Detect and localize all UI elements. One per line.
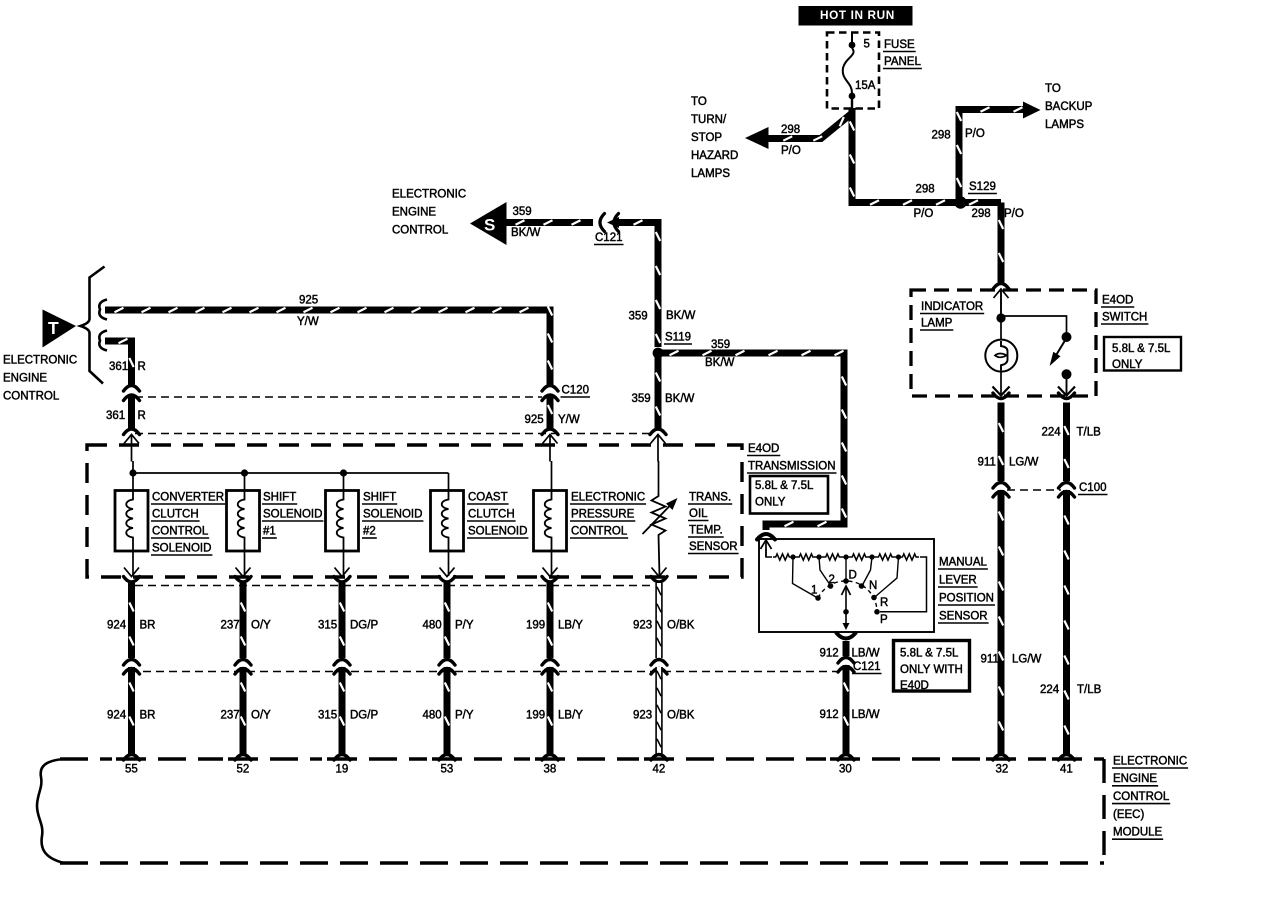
label fuse rating 15A: [855, 80, 876, 92]
svg-text:925: 925: [525, 414, 544, 426]
svg-text:30: 30: [839, 763, 852, 775]
electronic pressure control solenoid: [534, 491, 567, 552]
label T/LB (upper): [1077, 426, 1102, 438]
wire shift1 to case: [244, 551, 246, 576]
svg-text:P/Y: P/Y: [455, 709, 474, 721]
label 5.8L & 7.5L ONLY WITH E40D: [900, 647, 963, 692]
svg-text:P/O: P/O: [965, 128, 985, 140]
wire 924 BR upper: [129, 583, 133, 658]
svg-text:CLUTCH: CLUTCH: [152, 508, 199, 520]
pin 55: [125, 763, 138, 775]
svg-text:ENGINE: ENGINE: [1113, 773, 1157, 785]
svg-text:LB/Y: LB/Y: [558, 619, 583, 631]
pin 41: [1060, 763, 1073, 775]
case connector entry wire 359: [650, 429, 666, 462]
pin 53: [441, 763, 454, 775]
arrow T to electronic engine control: [43, 310, 77, 348]
label T/LB (lower): [1077, 684, 1102, 696]
trans oil temp sensor thermistor: [643, 493, 678, 576]
label 912 (upper): [820, 647, 839, 659]
svg-text:SHIFT: SHIFT: [263, 491, 296, 503]
svg-text:SOLENOID: SOLENOID: [468, 525, 527, 537]
label HOT IN RUN: [820, 8, 895, 22]
svg-text:C121: C121: [595, 232, 623, 244]
label gear R: [880, 597, 888, 609]
svg-text:5.8L & 7.5L: 5.8L & 7.5L: [900, 647, 959, 659]
svg-text:MANUAL: MANUAL: [939, 556, 988, 568]
MLP resistor chain: [766, 549, 927, 612]
svg-text:SOLENOID: SOLENOID: [363, 508, 422, 520]
svg-text:CONVERTER: CONVERTER: [152, 491, 224, 503]
connector C121 on wire 237 O/Y: [235, 660, 251, 675]
letter S: [484, 216, 495, 235]
connector C121 lower dashed link line: [130, 671, 840, 673]
svg-text:LB/W: LB/W: [852, 647, 880, 659]
label P/O (backup): [965, 128, 985, 140]
svg-text:DG/P: DG/P: [350, 709, 378, 721]
transmission case connector dashed link line: [135, 433, 652, 435]
svg-text:PRESSURE: PRESSURE: [571, 508, 635, 520]
svg-text:R: R: [138, 361, 146, 373]
svg-text:911: 911: [978, 456, 996, 468]
bus junction node 1: [129, 469, 136, 476]
label BK/W (S119 above): [666, 310, 696, 322]
svg-text:C121: C121: [853, 661, 881, 673]
label LG/W (upper): [1009, 456, 1039, 468]
MLP rotary contact arc: [818, 581, 877, 612]
wire 359 BK/W from C121 to S119: [616, 220, 660, 347]
wire 480 P/Y lower: [445, 667, 449, 754]
wire 315 DG/P upper: [340, 583, 344, 658]
label LB/Y (row1): [558, 619, 583, 631]
svg-text:912: 912: [820, 709, 839, 721]
label SHIFT SOLENOID #1: [262, 491, 323, 538]
connector C121 on wire 912: [838, 658, 854, 673]
MLP contact dots: [815, 578, 880, 614]
label 480 (row2): [423, 709, 442, 721]
svg-text:SOLENOID: SOLENOID: [263, 508, 322, 520]
fuse F1 element: [843, 33, 856, 113]
svg-text:COAST: COAST: [468, 491, 508, 503]
label LB/Y (row2): [558, 709, 583, 721]
svg-text:5.8L & 7.5L: 5.8L & 7.5L: [1112, 343, 1171, 355]
connector C121 on wire 315 DG/P: [334, 660, 350, 675]
connector C120 on wire 925: [542, 386, 558, 401]
svg-text:TRANSMISSION: TRANSMISSION: [748, 460, 836, 472]
svg-text:LB/W: LB/W: [852, 709, 880, 721]
svg-text:53: 53: [441, 763, 454, 775]
bus junction node 3: [340, 469, 347, 476]
EEC module box top border: [60, 757, 1104, 760]
wire diagonal branch to turn/stop lamps: [766, 114, 851, 141]
wire fuse output vertical 298: [850, 108, 1001, 205]
svg-text:315: 315: [318, 709, 337, 721]
connector C100 on wire 911: [993, 483, 1009, 498]
svg-text:923: 923: [633, 619, 652, 631]
label LB/W (lower): [852, 709, 880, 721]
svg-text:C120: C120: [562, 384, 590, 396]
svg-text:BR: BR: [140, 709, 156, 721]
svg-text:TEMP.: TEMP.: [689, 524, 723, 536]
svg-text:P/Y: P/Y: [455, 619, 474, 631]
svg-text:R: R: [138, 410, 146, 422]
svg-text:5: 5: [864, 38, 870, 50]
wire 237 O/Y upper: [241, 583, 245, 658]
EEC pin feet for wire 224: [1059, 755, 1075, 761]
label 924 (row2): [107, 709, 127, 721]
svg-text:E4OD: E4OD: [748, 443, 779, 455]
label O/BK (row1): [667, 619, 695, 631]
label 911 (lower): [981, 653, 999, 665]
label ELECTRONIC ENGINE CONTROL (T): [3, 354, 77, 402]
brace at T arrow: [81, 267, 105, 384]
svg-text:359: 359: [513, 206, 532, 218]
hot in run banner: [799, 6, 913, 26]
wire 224 T/LB lower: [1064, 490, 1068, 754]
case exit wire 924: [124, 568, 140, 583]
svg-text:C100: C100: [1079, 482, 1107, 494]
label DG/P (row2): [350, 709, 378, 721]
svg-text:CONTROL: CONTROL: [392, 224, 449, 236]
5.8L & 7.5L only with E4OD box: [894, 641, 970, 692]
label O/Y (row2): [251, 709, 271, 721]
label P/O (S129 left): [914, 208, 934, 220]
label TRANS OIL TEMP SENSOR: [688, 491, 739, 553]
MLP wiper: [842, 557, 851, 630]
connector C121 on wire 480 P/Y: [439, 660, 455, 675]
label gear 1: [811, 584, 817, 596]
label P/O (turn): [781, 145, 801, 157]
letter T: [48, 318, 59, 338]
label R (lower): [138, 410, 146, 422]
junction S119: [653, 348, 664, 359]
svg-text:237: 237: [221, 709, 240, 721]
pin 30: [839, 763, 852, 775]
svg-text:MODULE: MODULE: [1113, 827, 1163, 839]
svg-text:925: 925: [299, 294, 318, 306]
connector C120 dashed link line: [135, 396, 542, 398]
shift solenoid #2: [326, 491, 359, 552]
svg-text:FUSE: FUSE: [884, 39, 915, 51]
svg-text:ELECTRONIC: ELECTRONIC: [571, 491, 645, 503]
label 359 (S119 below): [632, 393, 651, 405]
svg-text:O/Y: O/Y: [251, 709, 271, 721]
label 361 (lower): [106, 410, 125, 422]
fuse panel dashed box: [827, 33, 879, 109]
label O/BK (row2): [667, 709, 695, 721]
EEC pin feet for wire 237 O/Y: [235, 755, 251, 761]
svg-text:E40D: E40D: [900, 680, 929, 692]
arrow into indicator box: [994, 289, 1009, 318]
connector C121 on wire 923 O/BK: [651, 660, 667, 675]
svg-text:(EEC): (EEC): [1113, 809, 1144, 821]
wire 924 BR lower: [129, 667, 133, 754]
MLP feed connector at box top: [757, 534, 775, 557]
label 925 (top): [299, 294, 318, 306]
svg-text:480: 480: [423, 709, 442, 721]
wire 359 BK/W S119 right to MLP feed: [658, 351, 846, 530]
svg-text:359: 359: [629, 310, 648, 322]
svg-text:POSITION: POSITION: [939, 592, 994, 604]
svg-text:CONTROL: CONTROL: [571, 525, 628, 537]
svg-text:224: 224: [1042, 426, 1062, 438]
label LB/W (upper): [852, 647, 880, 659]
wire 359 BK/W S119 down to transmission box: [656, 353, 660, 429]
svg-text:BACKUP: BACKUP: [1045, 101, 1093, 113]
wire converter solenoid to case: [132, 551, 134, 576]
EEC pin feet for wire 315 DG/P: [334, 755, 350, 761]
svg-text:237: 237: [221, 619, 240, 631]
label Y/W (lower): [558, 414, 580, 426]
EEC pin feet for wire 912: [838, 755, 854, 761]
svg-text:SENSOR: SENSOR: [689, 541, 738, 553]
label 315 (row1): [318, 619, 337, 631]
svg-text:P/O: P/O: [1004, 208, 1024, 220]
svg-text:ELECTRONIC: ELECTRONIC: [3, 354, 77, 366]
exit fork wire 911: [993, 393, 1009, 399]
label 224 (upper): [1042, 426, 1062, 438]
svg-text:O/BK: O/BK: [667, 709, 695, 721]
svg-text:S119: S119: [665, 331, 691, 343]
svg-text:TURN/: TURN/: [691, 114, 727, 126]
pin 19: [336, 763, 349, 775]
arrowhead to backup lamps: [1023, 102, 1041, 119]
wire 315 DG/P lower: [340, 667, 344, 754]
transmission bottom dashed link line: [135, 585, 654, 587]
label E4OD SWITCH: [1101, 294, 1148, 324]
svg-text:S: S: [484, 216, 495, 235]
svg-text:CONTROL: CONTROL: [1113, 791, 1170, 803]
label INDICATOR LAMP: [920, 301, 984, 330]
connector arc at indicator box entry: [993, 284, 1009, 290]
wire 912 LB/W upper: [843, 641, 850, 656]
svg-text:298: 298: [932, 129, 951, 141]
label O/Y (row1): [251, 619, 271, 631]
svg-text:O/Y: O/Y: [251, 619, 271, 631]
label 359 (S arrow): [513, 206, 532, 218]
svg-text:T: T: [48, 318, 59, 338]
label BK/W (S arrow): [511, 227, 541, 239]
svg-text:LAMPS: LAMPS: [1045, 119, 1084, 131]
svg-text:T/LB: T/LB: [1077, 426, 1102, 438]
svg-text:ONLY: ONLY: [1112, 359, 1143, 371]
svg-text:359: 359: [632, 393, 651, 405]
svg-text:ONLY WITH: ONLY WITH: [900, 664, 963, 676]
svg-text:HAZARD: HAZARD: [691, 150, 738, 162]
label P/O (S129 down): [1004, 208, 1024, 220]
svg-text:315: 315: [318, 619, 337, 631]
svg-text:SENSOR: SENSOR: [939, 610, 988, 622]
label ELECTRONIC ENGINE CONTROL (S): [392, 188, 466, 236]
svg-text:38: 38: [544, 763, 557, 775]
svg-text:ELECTRONIC: ELECTRONIC: [392, 188, 466, 200]
svg-text:199: 199: [526, 709, 545, 721]
label MANUAL LEVER POSITION SENSOR: [938, 556, 995, 623]
svg-text:41: 41: [1060, 763, 1073, 775]
label BR (row2): [140, 709, 156, 721]
svg-text:T/LB: T/LB: [1077, 684, 1102, 696]
svg-text:912: 912: [820, 647, 839, 659]
indicator lamp bulb: [985, 340, 1017, 372]
wire 237 O/Y lower: [241, 667, 245, 754]
svg-text:ENGINE: ENGINE: [3, 372, 47, 384]
E4OD switch upper contact: [1062, 332, 1072, 342]
svg-text:TO: TO: [1045, 83, 1061, 95]
svg-text:ENGINE: ENGINE: [392, 206, 436, 218]
label 912 (lower): [820, 709, 839, 721]
MLP exit fork: [837, 633, 856, 639]
svg-text:SOLENOID: SOLENOID: [152, 542, 211, 554]
svg-text:PANEL: PANEL: [884, 56, 921, 68]
label S129: [968, 181, 997, 194]
label COAST CLUTCH SOLENOID: [467, 491, 528, 538]
svg-text:LAMPS: LAMPS: [691, 168, 730, 180]
coast clutch solenoid: [431, 491, 464, 552]
label 923 (row1): [633, 619, 652, 631]
wire 912 LB/W lower: [844, 665, 848, 754]
label CONVERTER CLUTCH CONTROL SOLENOID: [151, 491, 225, 555]
svg-text:S129: S129: [969, 181, 996, 193]
5.8L & 7.5L only box (switch): [1104, 337, 1181, 371]
label 923 (row2): [633, 709, 652, 721]
indicator lamp lower lead: [1000, 370, 1002, 395]
svg-text:BK/W: BK/W: [665, 393, 695, 405]
svg-text:#1: #1: [263, 525, 276, 537]
label TO BACKUP LAMPS: [1045, 83, 1093, 131]
label E4OD TRANSMISSION: [747, 443, 837, 473]
svg-text:924: 924: [107, 709, 127, 721]
svg-text:SWITCH: SWITCH: [1102, 311, 1147, 323]
curl at start of wire 925: [99, 300, 107, 320]
wire 199 LB/Y upper: [548, 583, 552, 658]
svg-text:LG/W: LG/W: [1009, 456, 1039, 468]
svg-text:480: 480: [423, 619, 442, 631]
svg-text:R: R: [880, 597, 888, 609]
svg-text:359: 359: [711, 339, 730, 351]
EEC pin feet for wire 199 LB/Y: [542, 755, 558, 761]
svg-text:361: 361: [106, 410, 125, 422]
case exit wire 237: [235, 568, 251, 583]
svg-text:DG/P: DG/P: [350, 619, 378, 631]
label P/Y (row2): [455, 709, 474, 721]
label 480 (row1): [423, 619, 442, 631]
svg-text:O/BK: O/BK: [667, 619, 695, 631]
svg-text:55: 55: [125, 763, 138, 775]
svg-text:BK/W: BK/W: [511, 227, 541, 239]
svg-text:LG/W: LG/W: [1012, 653, 1042, 665]
label gear D: [849, 569, 857, 581]
svg-text:2: 2: [829, 574, 835, 586]
svg-text:N: N: [869, 580, 877, 592]
svg-text:361: 361: [109, 361, 128, 373]
E4OD switch arm: [1050, 338, 1067, 366]
svg-text:19: 19: [336, 763, 349, 775]
label ELECTRONIC ENGINE CONTROL (EEC) MODULE: [1112, 755, 1188, 839]
EEC pin feet for wire 924 BR: [124, 755, 140, 761]
svg-text:911: 911: [981, 653, 999, 665]
case exit wire 199: [542, 568, 558, 583]
pin 38: [544, 763, 557, 775]
connector C121 on wire 199 LB/Y: [542, 660, 558, 675]
svg-text:P: P: [880, 614, 888, 626]
junction S129: [954, 196, 966, 208]
label FUSE PANEL: [883, 39, 922, 69]
label 237 (row2): [221, 709, 240, 721]
svg-text:15A: 15A: [855, 80, 876, 92]
wire 361 R horizontal branch: [105, 339, 134, 386]
svg-text:#2: #2: [363, 525, 376, 537]
svg-text:OIL: OIL: [689, 508, 708, 520]
wire coast to case: [448, 551, 450, 576]
label S119: [664, 331, 692, 344]
connector C100 dashed link line: [1007, 489, 1061, 491]
label 199 (row2): [526, 709, 545, 721]
solenoid feed bus wire: [133, 461, 659, 493]
label 359 (S119 above): [629, 310, 648, 322]
wire 925 Y/W lower: [548, 395, 552, 430]
label R (upper): [138, 361, 146, 373]
label 298 (S129 down): [972, 208, 991, 220]
connector C120 on wire 361: [124, 386, 140, 401]
EEC module box left brace edge: [37, 759, 64, 863]
shift solenoid #1: [227, 491, 260, 552]
svg-text:5.8L & 7.5L: 5.8L & 7.5L: [755, 480, 814, 492]
EEC module box bottom border: [60, 861, 1104, 864]
svg-text:ELECTRONIC: ELECTRONIC: [1113, 755, 1187, 767]
svg-text:D: D: [849, 569, 857, 581]
label DG/P (row1): [350, 619, 378, 631]
svg-text:52: 52: [237, 763, 250, 775]
label C121 (MLP): [852, 661, 882, 674]
EEC pin feet for wire 480 P/Y: [439, 755, 455, 761]
label SHIFT SOLENOID #2: [362, 491, 423, 538]
label 237 (row1): [221, 619, 240, 631]
label 315 (row2): [318, 709, 337, 721]
svg-text:SHIFT: SHIFT: [363, 491, 396, 503]
arrow S to electronic engine control: [470, 202, 507, 245]
svg-text:199: 199: [526, 619, 545, 631]
svg-text:923: 923: [633, 709, 652, 721]
manual lever position sensor box: [759, 539, 934, 632]
wire 224 T/LB upper: [1064, 403, 1068, 482]
wire 923 O/BK lower (hollow): [657, 667, 661, 754]
label 911 (upper): [978, 456, 996, 468]
label gear 2: [829, 574, 835, 586]
converter clutch control solenoid: [115, 491, 148, 552]
svg-text:P/O: P/O: [781, 145, 801, 157]
svg-text:STOP: STOP: [691, 132, 722, 144]
svg-text:INDICATOR: INDICATOR: [921, 301, 983, 313]
svg-text:LAMP: LAMP: [921, 317, 953, 329]
indicator lamp branch wiring: [996, 291, 1066, 340]
svg-text:Y/W: Y/W: [297, 316, 319, 328]
label BK/W (S119 right): [705, 357, 735, 369]
label P/Y (row1): [455, 619, 474, 631]
wire 199 LB/Y lower: [548, 667, 552, 754]
connector C121 on wire 924 BR: [124, 660, 140, 675]
svg-text:BK/W: BK/W: [666, 310, 696, 322]
label C120: [561, 384, 591, 397]
E4OD switch exit arrow: [1058, 387, 1075, 396]
E4OD transmission dashed box: [87, 445, 742, 577]
label gear P: [880, 614, 888, 626]
case exit wire 923: [651, 568, 667, 583]
svg-text:CLUTCH: CLUTCH: [468, 508, 515, 520]
EEC module box right border: [1102, 759, 1105, 863]
svg-text:TO: TO: [691, 96, 707, 108]
svg-text:BK/W: BK/W: [705, 357, 735, 369]
EEC pin feet for wire 911: [993, 755, 1009, 761]
